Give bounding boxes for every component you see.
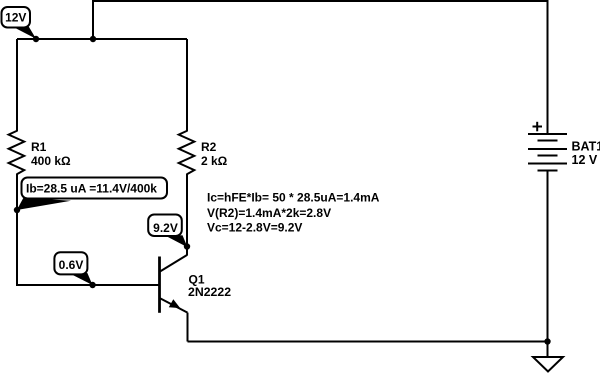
svg-text:R2: R2 [201,140,217,154]
svg-text:2 kΩ: 2 kΩ [201,154,228,168]
callout box 0.6V [54,252,87,274]
battery BAT1 plate long 1 [528,133,567,135]
battery BAT1 plate short 1 [538,140,558,142]
callout box Ib [22,178,168,199]
svg-text:Ib=28.5 uA =11.4V/400k: Ib=28.5 uA =11.4V/400k [26,181,157,195]
svg-text:12V: 12V [5,11,26,25]
wire R2 upper [186,39,188,132]
callout box 9.2V [148,215,182,237]
resistor R2 [179,131,195,174]
callout tail 9.2V [167,235,188,247]
node junction dot collector 9.2V probe [184,243,190,249]
battery plus sign [533,126,543,128]
transistor Q1 emitter lead [160,298,188,312]
wire R2 lower (collector wire) [186,174,188,256]
svg-text:400 kΩ: 400 kΩ [31,154,71,168]
transistor Q1 bar [158,257,161,313]
wire bottom rail [188,341,548,343]
callout tail Ib [17,198,71,210]
battery BAT1 plate short 3 [538,170,558,172]
svg-text:R1: R1 [31,140,47,154]
wire battery minus down to ground [547,171,549,358]
node junction dot top rail / 12V rail [90,36,96,42]
svg-text:Ic=hFE*Ib= 50 * 28.5uA=1.4mA: Ic=hFE*Ib= 50 * 28.5uA=1.4mA [207,191,380,205]
wire top rail from node A to battery plus [93,1,548,134]
wire emitter down [187,313,189,342]
wire 12V rail y=39 [17,38,187,40]
svg-text:BAT1: BAT1 [572,139,600,153]
battery BAT1 plate long 3 [528,163,567,165]
callout tail 0.6V [70,273,93,285]
callout tail 12V [15,25,37,38]
svg-text:V(R2)=1.4mA*2k=2.8V: V(R2)=1.4mA*2k=2.8V [207,206,331,220]
battery BAT1 plate short 2 [538,155,558,157]
svg-text:0.6V: 0.6V [59,258,84,272]
node junction dot ground [544,338,550,344]
ground [533,357,563,372]
node junction dot 12V probe [33,36,39,42]
transistor Q1 collector lead [160,255,187,272]
svg-text:Vc=12-2.8V=9.2V: Vc=12-2.8V=9.2V [207,221,302,235]
svg-text:9.2V: 9.2V [153,221,178,235]
callout box 12V [2,7,31,28]
svg-text:12 V: 12 V [572,153,598,167]
svg-text:2N2222: 2N2222 [188,285,231,299]
node junction dot Ib probe [14,207,20,213]
wire left branch upper (to R1 top) [16,39,18,132]
transistor Q1 emitter arrowhead [169,299,180,308]
node junction dot base 0.6V probe [89,282,95,288]
resistor R1 [9,131,25,174]
wire left branch lower and base wire [17,174,159,285]
battery BAT1 plate long 2 [528,148,567,150]
